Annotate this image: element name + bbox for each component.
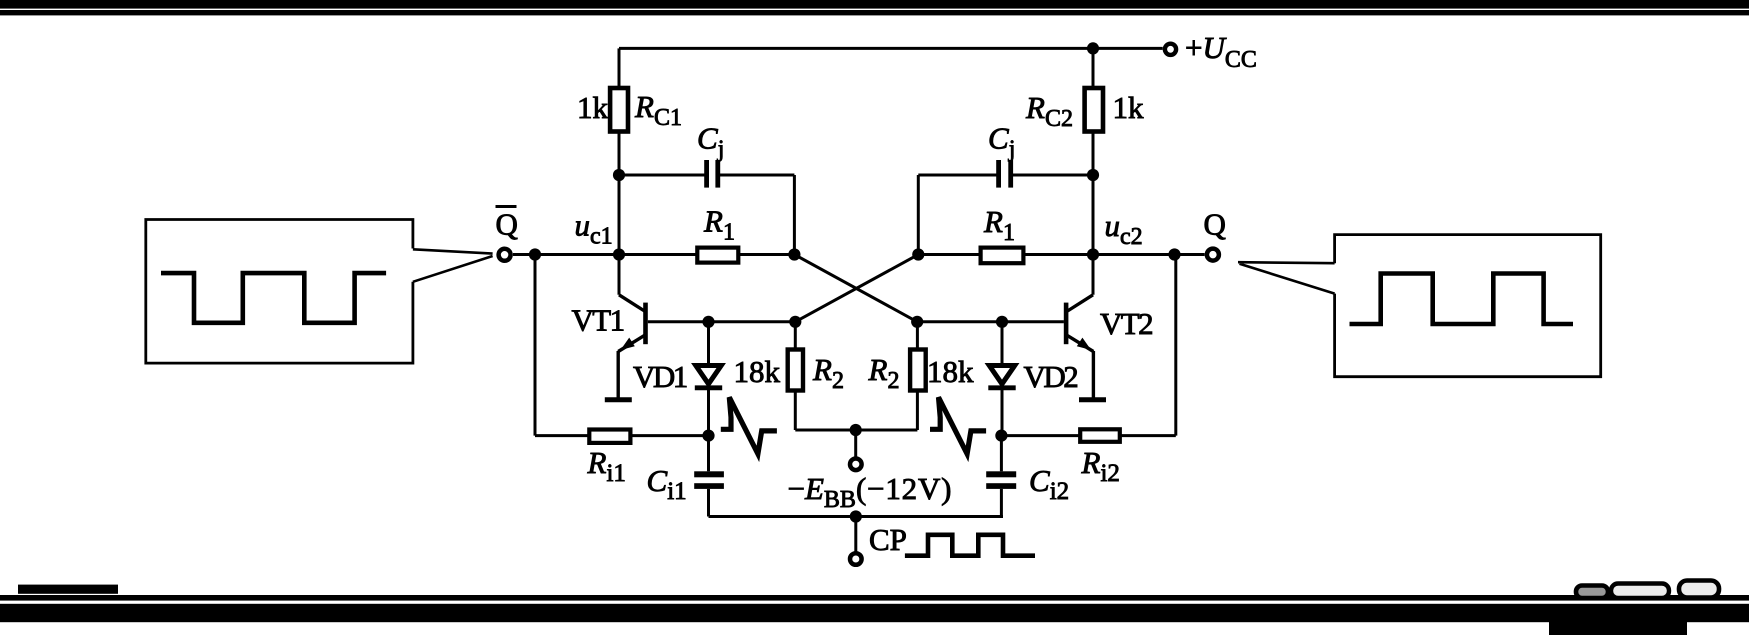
wire Ci1 bottom lead: [707, 489, 710, 517]
wire Qbar branch vertical: [534, 255, 537, 436]
svg-text:CP: CP: [869, 522, 907, 557]
wire R2 bottom row: [795, 429, 917, 432]
node EBB junction: [850, 424, 862, 436]
scan blob 1: [1576, 586, 1608, 599]
ground VT2 emitter: [1079, 397, 1106, 402]
wire Ci2 top lead: [1000, 436, 1003, 472]
callout lines Qbar: [413, 249, 493, 281]
wire VT1 emitter vertical: [617, 351, 620, 398]
wire R2 left bottom lead: [794, 391, 797, 430]
diode VD2: [988, 366, 1015, 388]
wire R1 right lead: [918, 253, 980, 256]
node Cj1 left junction: [613, 169, 625, 181]
wire CP row: [709, 515, 1004, 518]
wire VT1 collector diagonal: [619, 295, 645, 311]
wire VD1 branch vertical: [707, 322, 710, 436]
waveform Q square wave: [1350, 274, 1574, 325]
wire R2 right top lead: [916, 322, 919, 350]
resistor R1 left: [697, 248, 738, 263]
wire Ci1 top lead: [707, 436, 710, 472]
svg-text:1k: 1k: [1113, 90, 1145, 125]
terminal -EBB: [850, 459, 862, 471]
wire RC2 top lead: [1092, 48, 1095, 88]
svg-text:18k: 18k: [734, 354, 781, 389]
wire left collector vertical: [618, 131, 621, 295]
node uc1 junction: [613, 248, 625, 260]
node Cj2 right junction: [1087, 169, 1099, 181]
resistor Ri1: [589, 430, 630, 443]
wire Cj1 left lead: [619, 174, 705, 177]
node R2 left top junction: [789, 316, 801, 328]
bottom border line: [0, 595, 1749, 601]
svg-text:VD1: VD1: [633, 359, 687, 394]
wire top supply rail: [619, 47, 1163, 50]
trigger spike symbol right: [930, 397, 986, 454]
resistor R2 left: [788, 350, 803, 391]
diode VD1: [695, 366, 722, 388]
node VT2 base junction: [996, 316, 1008, 328]
bottom right black tab: [1549, 620, 1687, 635]
transistor VT1 emitter arrow: [621, 338, 635, 350]
node CP junction: [850, 510, 862, 522]
wire Q branch vertical: [1174, 255, 1177, 436]
wire Cj1 to R1 node: [793, 175, 796, 255]
terminal Qbar: [499, 249, 511, 261]
resistor Ri2: [1080, 429, 1120, 442]
bottom border band: [0, 604, 1749, 622]
node uc2 junction: [1087, 248, 1099, 260]
output label Qbar overbar: [496, 205, 517, 208]
wire VD2 branch vertical: [1001, 322, 1004, 436]
node R1 left cross junction: [788, 248, 800, 260]
svg-text:VT1: VT1: [572, 303, 624, 338]
wire Cj2 to R1 node: [917, 175, 920, 255]
node Ri1 VD1 junction: [702, 430, 714, 442]
wire cross coupling diagonal 2: [795, 255, 918, 322]
svg-text:VD2: VD2: [1024, 359, 1078, 394]
wire base row VT1: [648, 320, 796, 323]
waveform box Qbar: [146, 220, 413, 364]
waveform Qbar square wave: [161, 273, 386, 323]
wire Cj2 right lead: [1012, 174, 1093, 177]
wire Ri2 right lead: [1120, 434, 1176, 437]
wire right collector vertical: [1092, 131, 1095, 295]
wire VT1 emitter diagonal: [618, 335, 645, 352]
resistor RC2: [1085, 88, 1103, 132]
wire Cj1 right lead: [720, 174, 795, 177]
node R2 right top junction: [911, 316, 923, 328]
wire Ci2 bottom lead: [1000, 489, 1003, 517]
top border line: [0, 10, 1749, 15]
terminal Q: [1207, 249, 1219, 261]
wire VT2 emitter diagonal: [1066, 335, 1093, 352]
bottom left black mark: [18, 585, 118, 594]
wire VT2 emitter vertical: [1092, 351, 1095, 398]
svg-text:Q: Q: [1204, 207, 1226, 242]
node Q branch junction: [1168, 248, 1180, 260]
wire R1 left to cross node: [738, 253, 794, 256]
transistor VT2 emitter arrow: [1077, 338, 1091, 350]
transistor VT2 base bar: [1064, 303, 1069, 345]
wire CP stub: [854, 517, 857, 552]
transistor VT1 base bar: [643, 303, 648, 345]
top border band: [0, 0, 1749, 9]
wire R2 left top lead: [794, 322, 797, 350]
terminal CP: [850, 553, 862, 565]
svg-text:18k: 18k: [927, 354, 974, 389]
svg-text:VT2: VT2: [1100, 306, 1152, 341]
capacitor Ci2 plates: [986, 471, 1016, 489]
wire EBB stub: [854, 430, 857, 457]
wire uc2 row: [1023, 253, 1204, 256]
wire cross coupling diagonal 1: [794, 255, 917, 322]
waveform box Q: [1335, 235, 1601, 377]
wire RC1 top lead: [618, 48, 621, 88]
resistor RC1: [610, 88, 628, 132]
trigger spike symbol left: [721, 397, 777, 454]
capacitor Ci1 plates: [694, 471, 724, 489]
resistor R1 right: [981, 248, 1024, 264]
wire uc1 row: [513, 253, 697, 256]
wire base row VT2: [917, 320, 1064, 323]
wire R2 right bottom lead: [916, 391, 919, 430]
svg-text:1k: 1k: [577, 90, 609, 125]
terminal +UCC: [1165, 44, 1176, 55]
node top rail junction: [1087, 42, 1099, 54]
node VT1 base junction: [702, 316, 714, 328]
scan blob 2: [1611, 584, 1669, 599]
node Ri2 VD2 junction: [995, 430, 1007, 442]
callout lines Q: [1238, 262, 1335, 293]
wire VT2 collector diagonal: [1068, 295, 1094, 311]
wire Ri2 left lead: [1001, 434, 1080, 437]
waveform CP square wave: [905, 535, 1035, 556]
wire Ri1 right lead: [630, 434, 708, 437]
capacitor Cj right plates: [996, 160, 1013, 188]
resistor R2 right: [910, 350, 926, 391]
wire Cj2 left lead: [918, 174, 996, 177]
ground VT1 emitter: [605, 397, 632, 402]
wire Ri1 left lead: [535, 434, 589, 437]
node Qbar branch junction: [529, 248, 541, 260]
scan blob 3: [1679, 581, 1719, 598]
node R1 right cross junction: [912, 248, 924, 260]
svg-text:Q: Q: [496, 207, 518, 242]
capacitor Cj left plates: [704, 160, 720, 188]
